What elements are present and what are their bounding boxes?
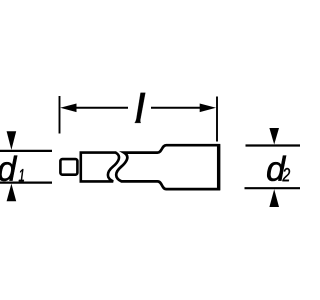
d2 dimension line bottom [245,187,301,189]
dimension line l right segment [151,107,203,109]
label d of d1 [0,156,17,181]
d1 dimension line top [0,150,52,152]
d2 arrowhead up [269,189,279,207]
shaft right piece, taper and socket head [116,145,219,189]
label subscript 2 of d2 [282,168,290,181]
socket head right edge reinforcement [217,144,220,190]
d2 arrowhead down [269,128,279,145]
d1 arrowhead up [7,184,17,202]
extension line right of dimension l [216,97,218,142]
label l (length) [135,93,146,123]
arrowhead right of dimension l [200,104,216,113]
d1 arrowhead down [7,131,17,150]
label subscript 1 of d1 [19,169,24,181]
square drive tang [60,159,77,175]
dimension line l left segment [73,107,128,109]
d1 dimension line bottom [0,182,52,184]
d2 dimension line top [246,144,301,146]
extension line left of dimension l [59,96,61,134]
shaft left piece with break curve [81,153,119,182]
arrowhead left of dimension l [60,104,76,113]
label d of d2 [267,156,286,181]
